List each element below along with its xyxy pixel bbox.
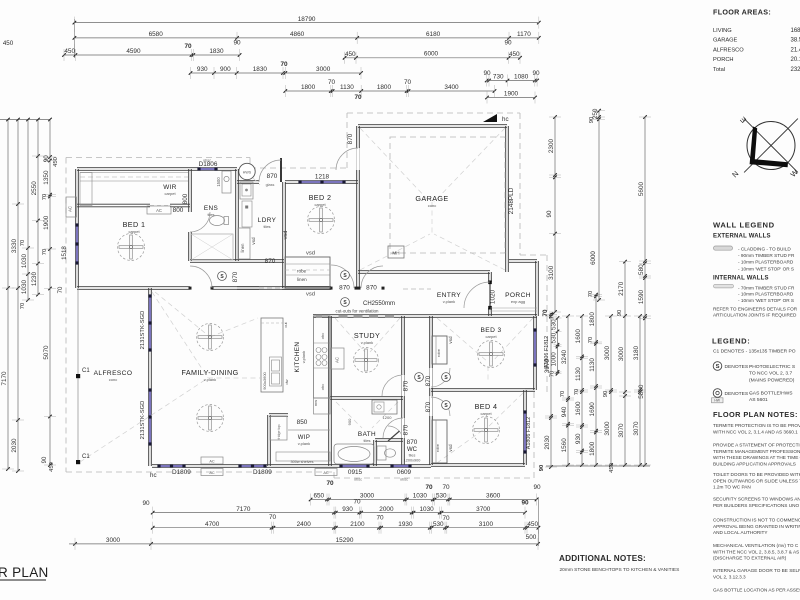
svg-text:ALFRESCO: ALFRESCO — [94, 370, 133, 377]
wall kitchen/study — [328, 316, 330, 398]
svg-text:70: 70 — [184, 43, 192, 50]
island cut line — [261, 322, 283, 324]
window D1806 — [199, 168, 216, 170]
svg-text:SECURITY SCREENS TO WINDOWS AN: SECURITY SCREENS TO WINDOWS AND — [713, 497, 800, 502]
svg-text:AC: AC — [209, 460, 215, 464]
svg-text:1590: 1590 — [638, 289, 645, 304]
window 0609 — [392, 465, 410, 467]
svg-text:930: 930 — [342, 506, 353, 513]
door garage PA 870 — [356, 148, 359, 170]
svg-text:CONSTRUCTION IS NOT TO COMMENC: CONSTRUCTION IS NOT TO COMMENC — [713, 518, 800, 523]
svg-text:1030: 1030 — [413, 493, 428, 500]
porch step — [490, 307, 537, 309]
wall BED2/garage — [356, 126, 358, 289]
dim rrow porch cluster — [557, 318, 559, 374]
svg-text:fridge top: fridge top — [277, 425, 281, 440]
dim 7170 — [7, 288, 9, 469]
svg-text:870: 870 — [425, 401, 432, 412]
svg-text:FLOOR AREAS:: FLOOR AREAS: — [713, 8, 771, 17]
svg-text:1900: 1900 — [43, 215, 50, 230]
svg-text:850: 850 — [297, 419, 308, 426]
svg-text:1830: 1830 — [253, 66, 268, 73]
svg-text:7170: 7170 — [236, 506, 251, 513]
svg-text:450: 450 — [49, 462, 55, 472]
svg-text:70: 70 — [326, 480, 334, 487]
svg-text:930: 930 — [575, 433, 582, 444]
svg-text:2100: 2100 — [350, 521, 365, 528]
svg-text:tiles: tiles — [409, 454, 416, 458]
svg-text:70: 70 — [354, 94, 362, 101]
AC family a2 — [201, 469, 223, 476]
ceiling fan BED1 — [118, 234, 145, 261]
svg-text:870: 870 — [403, 380, 410, 391]
svg-text:530: 530 — [551, 332, 558, 343]
wall WIR bottom — [77, 206, 150, 208]
bath tub — [334, 444, 374, 464]
svg-text:REFER TO ENGINEERS DETAILS FOR: REFER TO ENGINEERS DETAILS FOR — [713, 307, 798, 312]
window 1218 — [300, 181, 344, 183]
WC toilet — [377, 446, 386, 460]
wall WIP top — [269, 415, 288, 417]
svg-text:70: 70 — [560, 391, 566, 397]
dim brow1 — [311, 499, 537, 501]
svg-text:ENS: ENS — [204, 205, 218, 212]
ceiling fan BED4 — [473, 417, 500, 444]
svg-text:TO NCC VOL 2, 3.7: TO NCC VOL 2, 3.7 — [749, 371, 792, 377]
svg-text:2030: 2030 — [544, 435, 551, 450]
svg-text:870: 870 — [366, 285, 377, 292]
svg-text:3000: 3000 — [360, 493, 375, 500]
svg-text:exp agg: exp agg — [511, 299, 525, 304]
dim row3 right — [345, 57, 520, 59]
svg-text:hc: hc — [502, 116, 509, 123]
svg-text:650: 650 — [313, 493, 324, 500]
dim rrow c — [581, 316, 583, 465]
svg-text:ALFRESCO: ALFRESCO — [713, 47, 744, 53]
svg-text:70: 70 — [280, 61, 288, 68]
svg-text:- 90mm TIMBER STUD FR: - 90mm TIMBER STUD FR — [738, 253, 795, 258]
wall alfresco top — [77, 288, 150, 290]
dim rrow e — [610, 316, 612, 465]
WIP fridge/bench — [270, 416, 287, 440]
svg-text:AC: AC — [68, 206, 73, 212]
svg-text:70: 70 — [42, 194, 48, 200]
wall bath left — [328, 398, 330, 466]
svg-text:ARTICULATION JOINTS IF REQUIRE: ARTICULATION JOINTS IF REQUIRED — [713, 312, 797, 317]
wall bath/wc bottom — [330, 466, 431, 468]
svg-text:TERMITE PROTECTION IS TO BE PR: TERMITE PROTECTION IS TO BE PROVID — [713, 423, 800, 428]
svg-text:530: 530 — [551, 319, 558, 330]
svg-text:70: 70 — [588, 291, 594, 297]
svg-text:20.15m: 20.15m — [791, 57, 800, 63]
svg-text:PHOTOELECTRIC S: PHOTOELECTRIC S — [749, 364, 796, 370]
dim rrow b — [567, 316, 569, 465]
svg-text:90: 90 — [521, 500, 529, 507]
MH box — [388, 246, 404, 258]
svg-text:AC: AC — [209, 471, 215, 475]
svg-text:70: 70 — [353, 499, 361, 506]
bath vanity — [372, 400, 397, 414]
svg-text:ohc: ohc — [320, 333, 325, 339]
dim brow2 — [153, 512, 525, 514]
svg-text:70: 70 — [20, 240, 26, 246]
BED2 robe/linen — [285, 257, 330, 288]
svg-text:1600: 1600 — [575, 401, 582, 416]
svg-text:1000: 1000 — [551, 352, 558, 367]
svg-text:LIVING: LIVING — [713, 28, 732, 34]
wall study top — [313, 316, 403, 318]
svg-text:- 70mm TIMBER STUD FR: - 70mm TIMBER STUD FR — [738, 286, 795, 291]
dim brow4 — [75, 543, 538, 545]
svg-text:APPROVAL BEING GRANTED IN WRIT: APPROVAL BEING GRANTED IN WRITIN — [713, 524, 800, 529]
svg-text:WITH THE NCC VOL 2, 3.8.5, 3.8: WITH THE NCC VOL 2, 3.8.5, 3.8.7 & AS — [713, 549, 799, 554]
WIR robe shelf — [80, 172, 188, 174]
wall LDRY top — [237, 182, 259, 184]
roof hip dashed lines — [80, 378, 208, 462]
smoke detector entryhall — [341, 298, 350, 307]
svg-text:DENOTES -: DENOTES - — [725, 364, 752, 370]
door hall 870 b — [361, 266, 383, 288]
dim rrow i — [639, 316, 641, 465]
smoke detector bed3 — [442, 373, 451, 382]
svg-text:v.plank: v.plank — [204, 377, 216, 382]
window 0915 — [341, 465, 368, 467]
wall WIR/ENS — [188, 169, 190, 212]
svg-text:PORCH: PORCH — [713, 57, 734, 63]
svg-text:LDRY: LDRY — [258, 217, 277, 224]
eaves dashed outline — [66, 157, 250, 159]
svg-text:3070: 3070 — [633, 421, 640, 436]
svg-text:MECHANICAL VENTILATION (mv) TO: MECHANICAL VENTILATION (mv) TO C — [713, 543, 799, 548]
svg-text:70: 70 — [269, 514, 277, 521]
svg-text:carpet: carpet — [485, 334, 497, 339]
svg-text:dw: dw — [284, 379, 289, 384]
wall ENS/LDRY — [235, 182, 237, 261]
svg-text:4860: 4860 — [290, 31, 305, 38]
svg-text:870: 870 — [232, 271, 239, 282]
svg-text:1218: 1218 — [315, 174, 330, 181]
svg-text:carpet: carpet — [480, 411, 492, 416]
svg-text:cut-outs for ventilation: cut-outs for ventilation — [336, 309, 380, 314]
wall BED4 right — [523, 390, 525, 465]
svg-text:70: 70 — [20, 303, 26, 309]
svg-text:carpet: carpet — [314, 202, 326, 207]
LDRY washer — [242, 201, 252, 227]
svg-text:800: 800 — [173, 207, 184, 214]
svg-text:D1806: D1806 — [199, 161, 218, 168]
wall BED3 right — [533, 316, 535, 390]
WIR shelf left — [80, 173, 92, 206]
svg-text:90: 90 — [603, 391, 609, 397]
svg-text:GARAGE: GARAGE — [713, 38, 738, 44]
svg-text:linen: linen — [240, 243, 245, 253]
kitchen island — [261, 318, 283, 392]
svg-text:900x3600: 900x3600 — [262, 371, 267, 389]
svg-text:2300: 2300 — [548, 138, 555, 153]
door ENS 800 — [190, 212, 210, 232]
dim rrow h — [644, 117, 646, 465]
svg-text:CH2550mm: CH2550mm — [363, 301, 395, 307]
wall left BED1 — [75, 169, 77, 288]
svg-text:2000: 2000 — [379, 506, 394, 513]
wall ENS left lower — [188, 232, 190, 261]
svg-text:BED 1: BED 1 — [123, 220, 146, 229]
svg-text:900: 900 — [347, 418, 352, 425]
svg-text:450: 450 — [509, 51, 520, 58]
svg-text:1800: 1800 — [589, 312, 596, 327]
svg-text:90: 90 — [589, 117, 595, 123]
svg-text:870: 870 — [403, 424, 410, 435]
svg-text:1800: 1800 — [589, 441, 596, 456]
svg-text:1130: 1130 — [589, 358, 596, 372]
svg-text:38.55m: 38.55m — [791, 38, 800, 44]
svg-text:3070: 3070 — [618, 423, 625, 438]
svg-text:(MAINS POWERED): (MAINS POWERED) — [749, 378, 795, 384]
svg-text:D1809: D1809 — [253, 469, 272, 476]
HWS unit — [239, 163, 255, 179]
svg-text:BATH: BATH — [358, 431, 376, 438]
svg-text:90: 90 — [617, 310, 623, 316]
svg-text:90: 90 — [42, 456, 48, 463]
svg-text:940: 940 — [561, 406, 568, 417]
svg-text:vsd: vsd — [306, 251, 315, 257]
ENS vanity — [222, 171, 231, 193]
window D1809 b — [240, 465, 265, 467]
svg-text:1030: 1030 — [419, 506, 434, 513]
stacker door 2131STK-SGD a — [149, 296, 151, 350]
smoke detector hall2 — [415, 373, 424, 382]
svg-text:obsc: obsc — [354, 478, 362, 482]
svg-text:VOL 2, 3.12.3.3: VOL 2, 3.12.3.3 — [713, 574, 746, 579]
dim rrow a2 — [550, 314, 552, 467]
wall porch right — [535, 261, 537, 316]
hc marker garage — [483, 114, 497, 122]
svg-text:3970: 3970 — [544, 358, 551, 373]
svg-text:PROVIDE A STATEMENT OF PROTECT: PROVIDE A STATEMENT OF PROTECTIO — [713, 443, 800, 448]
svg-text:3100: 3100 — [479, 521, 494, 528]
wall entry east upper — [488, 272, 490, 282]
svg-text:5070: 5070 — [43, 345, 50, 360]
wall BED3/BED4 divider — [431, 390, 525, 392]
door jamb blocks hall — [330, 287, 333, 290]
svg-text:1350: 1350 — [43, 170, 50, 185]
linen cabinet — [238, 228, 250, 259]
dim left4 — [37, 156, 39, 295]
svg-text:1130: 1130 — [575, 367, 582, 381]
dim 18790 — [74, 22, 538, 24]
AC unit left — [66, 197, 77, 217]
svg-text:530: 530 — [436, 493, 447, 500]
svg-text:AC: AC — [323, 471, 329, 475]
svg-text:90: 90 — [504, 40, 512, 47]
svg-text:- 10mm 'WET STOP' OR S: - 10mm 'WET STOP' OR S — [738, 266, 794, 271]
svg-text:1800: 1800 — [301, 84, 316, 91]
svg-text:1170: 1170 — [517, 31, 531, 38]
svg-text:vsd: vsd — [251, 237, 256, 245]
svg-text:870: 870 — [265, 258, 276, 265]
svg-text:WIR: WIR — [163, 184, 177, 191]
opening dashed hall west — [259, 287, 282, 289]
svg-text:conc: conc — [428, 203, 436, 208]
svg-text:6000: 6000 — [590, 251, 597, 265]
svg-text:HWS: HWS — [243, 171, 252, 175]
svg-text:3000: 3000 — [316, 66, 331, 73]
svg-text:1020: 1020 — [490, 289, 497, 304]
svg-text:3000: 3000 — [618, 346, 625, 361]
svg-text:450: 450 — [64, 48, 75, 55]
svg-text:1930: 1930 — [398, 521, 413, 528]
svg-text:168.28m: 168.28m — [791, 28, 800, 34]
door front 870 — [280, 158, 282, 182]
wall hall right — [429, 316, 431, 465]
svg-text:HW: HW — [714, 399, 720, 403]
svg-text:- 10mm PLASTERBOARD: - 10mm PLASTERBOARD — [738, 292, 794, 297]
wall WIP bottom — [269, 466, 330, 468]
svg-text:500: 500 — [526, 534, 537, 541]
svg-text:BED 2: BED 2 — [309, 193, 332, 202]
svg-text:STUDY: STUDY — [354, 331, 380, 340]
dim rrow g — [624, 262, 626, 465]
svg-text:870: 870 — [267, 173, 278, 180]
svg-text:R PLAN: R PLAN — [0, 565, 49, 580]
AC wip — [315, 469, 337, 476]
svg-text:conc: conc — [109, 377, 117, 382]
svg-text:robe: robe — [297, 269, 307, 274]
svg-text:3240: 3240 — [561, 349, 568, 364]
svg-text:C1: C1 — [82, 368, 90, 374]
svg-text:vsd: vsd — [448, 444, 453, 452]
svg-text:870: 870 — [347, 133, 354, 144]
wall family bottom — [152, 466, 269, 468]
svg-text:PER BUILDERS SPECIFICATIONS UN: PER BUILDERS SPECIFICATIONS UNO — [713, 503, 799, 508]
svg-text:C1 DENOTES - 135x135 TIMBER: C1 DENOTES - 135x135 TIMBER PO — [713, 349, 796, 355]
dim rrow f — [598, 111, 600, 300]
post C1 b — [76, 460, 80, 464]
svg-text:v.plank: v.plank — [298, 441, 310, 446]
svg-text:D1809: D1809 — [172, 469, 191, 476]
top left connector — [73, 19, 75, 58]
north compass — [747, 122, 795, 170]
alfresco slab edge — [77, 288, 79, 462]
vent cutouts hatch — [316, 315, 322, 318]
svg-text:21.47m: 21.47m — [791, 47, 800, 53]
kitchen bench — [314, 316, 331, 398]
svg-text:carpet: carpet — [164, 191, 176, 196]
wall garage right — [505, 126, 507, 272]
svg-text:AND LOCAL AUTHORITY: AND LOCAL AUTHORITY — [713, 530, 768, 535]
svg-text:70: 70 — [574, 389, 580, 395]
svg-text:WC: WC — [407, 447, 418, 453]
ceiling fan FAMILY a — [197, 324, 224, 351]
wall BED2 top — [285, 182, 358, 184]
svg-text:2030: 2030 — [11, 438, 18, 453]
wall wc left — [373, 440, 375, 466]
svg-text:1230: 1230 — [31, 271, 38, 286]
wall WIP left — [267, 415, 269, 466]
svg-text:3700: 3700 — [476, 506, 491, 513]
svg-text:90: 90 — [233, 40, 241, 47]
dim rrow d — [595, 295, 597, 465]
smoke detector lobby — [341, 271, 350, 280]
svg-text:WITH THESE DRAWINGS AT THE TIM: WITH THESE DRAWINGS AT THE TIME O — [713, 455, 800, 460]
svg-text:450: 450 — [609, 463, 615, 473]
svg-text:vsd: vsd — [448, 336, 453, 344]
window 1518 — [76, 225, 78, 263]
svg-text:1690: 1690 — [589, 402, 596, 417]
svg-text:930: 930 — [197, 66, 208, 73]
svg-text:carpet: carpet — [128, 229, 140, 234]
svg-text:AC: AC — [156, 208, 162, 213]
window A1806 F1812 bed3 — [534, 330, 536, 365]
svg-text:2148PLD: 2148PLD — [508, 187, 515, 214]
svg-text:70: 70 — [442, 515, 450, 522]
svg-text:1080: 1080 — [514, 74, 529, 81]
svg-text:5600: 5600 — [638, 181, 645, 196]
door BED4 870 — [430, 396, 433, 416]
BED4 robe — [432, 420, 447, 463]
svg-text:90: 90 — [533, 484, 541, 491]
svg-text:PORCH: PORCH — [505, 292, 531, 299]
svg-text:2170: 2170 — [618, 281, 625, 296]
svg-text:v.plank: v.plank — [361, 340, 373, 345]
svg-text:- CLADDING - TO BUILD: - CLADDING - TO BUILD — [738, 247, 791, 252]
dim row5 — [285, 90, 494, 92]
wall top WIR/BED1 — [77, 169, 237, 171]
svg-text:ADDITIONAL NOTES:: ADDITIONAL NOTES: — [559, 554, 646, 563]
svg-text:1900: 1900 — [504, 91, 519, 98]
svg-text:tiles: tiles — [263, 224, 270, 229]
wall porch top — [509, 261, 537, 263]
svg-text:cut: cut — [283, 321, 288, 327]
svg-text:3000: 3000 — [604, 345, 611, 360]
svg-text:3400: 3400 — [444, 84, 459, 91]
svg-text:800: 800 — [182, 193, 189, 204]
wall garage bottom — [358, 272, 490, 274]
svg-text:INTERNAL GARAGE DOOR TO BE SEL: INTERNAL GARAGE DOOR TO BE SELF — [713, 568, 800, 573]
svg-text:vsd: vsd — [283, 231, 289, 240]
svg-text:0915: 0915 — [348, 469, 363, 476]
svg-text:2131STK-SGD: 2131STK-SGD — [140, 401, 146, 440]
svg-text:90: 90 — [483, 70, 491, 77]
LDRY trough — [240, 182, 253, 199]
wall garage top — [358, 126, 507, 128]
svg-text:90: 90 — [546, 210, 553, 217]
dim 1900 — [487, 97, 535, 99]
svg-text:INTERNAL WALLS: INTERNAL WALLS — [713, 276, 769, 282]
svg-text:C1: C1 — [82, 454, 90, 460]
svg-text:3000: 3000 — [106, 537, 121, 544]
svg-text:15290: 15290 — [336, 537, 354, 544]
svg-text:GAS BOTTLE/HWS: GAS BOTTLE/HWS — [749, 391, 793, 397]
wall bath top — [330, 398, 403, 400]
svg-text:v.plank: v.plank — [443, 299, 455, 304]
svg-text:robe: robe — [436, 348, 441, 357]
wall wc top — [375, 440, 403, 442]
svg-text:N: N — [730, 169, 740, 179]
svg-text:A1806 F1812: A1806 F1812 — [526, 417, 532, 449]
svg-text:0609: 0609 — [397, 469, 412, 476]
svg-text:hc: hc — [150, 472, 157, 479]
dim left5 — [49, 157, 51, 465]
garage door outline dashed — [390, 137, 505, 253]
svg-text:450: 450 — [527, 521, 538, 528]
dim row4 left — [191, 72, 362, 74]
svg-text:W: W — [789, 167, 800, 179]
wall family left stacker — [148, 288, 150, 466]
dim rrow a — [554, 117, 556, 312]
AC family a1 — [201, 457, 223, 464]
svg-text:3330: 3330 — [11, 238, 18, 253]
